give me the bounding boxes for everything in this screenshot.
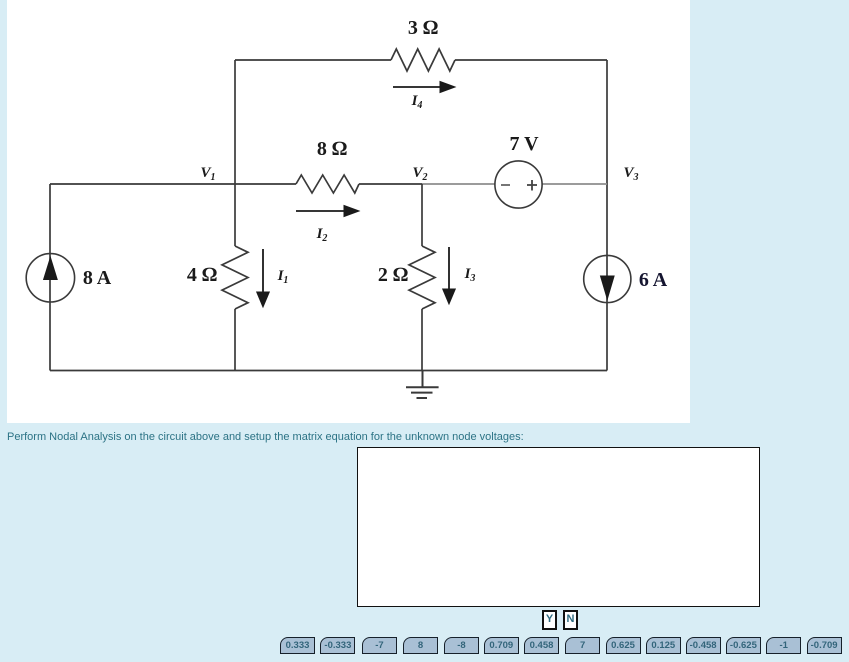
wire V1 vertical down to 4 ohm [234, 184, 236, 246]
prompt text [7, 431, 524, 443]
7V source polarity marks [501, 180, 537, 191]
resistor 3 ohm [391, 49, 455, 71]
svg-text:I1: I1 [277, 268, 289, 286]
value tiles [280, 637, 315, 654]
svg-text:4 Ω: 4 Ω [187, 264, 217, 286]
current arrow I4 [393, 82, 455, 93]
svg-text:I4: I4 [411, 93, 423, 111]
svg-text:6 A: 6 A [639, 269, 668, 291]
svg-text:3 Ω: 3 Ω [408, 17, 438, 39]
svg-text:I2: I2 [316, 226, 328, 244]
svg-text:I3: I3 [464, 266, 476, 284]
6A source arrow [601, 276, 615, 299]
svg-text:V2: V2 [412, 165, 427, 183]
current arrow I2 [296, 206, 359, 217]
current arrow I3 [443, 247, 456, 304]
wire V2 to 7V source [359, 183, 422, 185]
resistor 4 ohm [222, 246, 248, 309]
svg-text:8 A: 8 A [83, 267, 112, 289]
wire top-left vertical (V1 up to top loop) [234, 60, 236, 184]
resistor 8 ohm [296, 175, 359, 193]
ground [406, 371, 439, 399]
svg-text:V1: V1 [200, 165, 215, 183]
wire below 4 ohm [234, 309, 236, 371]
svg-text:V3: V3 [623, 165, 638, 183]
svg-text:7 V: 7 V [509, 133, 539, 155]
circuit schematic panel [7, 0, 690, 423]
wire middle horizontal V1 row [50, 183, 296, 185]
wire right vertical V3 down to 6A [606, 60, 608, 256]
wire bottom horizontal [50, 370, 607, 372]
8A source arrow [44, 258, 58, 280]
resistor 2 ohm [409, 246, 435, 309]
wire left vertical through 8A source [49, 184, 51, 371]
svg-text:2 Ω: 2 Ω [378, 264, 408, 286]
wire right vertical through 6A source [606, 256, 608, 371]
N tile [563, 610, 578, 630]
wire top horizontal right of R 3ohm [455, 59, 607, 61]
wire top horizontal left of R 3ohm [235, 59, 391, 61]
question box [357, 447, 760, 607]
voltage source U1 7V [495, 161, 542, 208]
wire V2 vertical down to 2 ohm [421, 184, 423, 246]
wire 7V source to V3 [542, 183, 607, 185]
current arrow I1 [257, 249, 270, 307]
current source 8A circle [26, 254, 74, 302]
Y tile [542, 610, 557, 630]
wire below 2 ohm [421, 309, 423, 371]
current source 6A circle [584, 255, 631, 302]
svg-text:8 Ω: 8 Ω [317, 138, 347, 160]
